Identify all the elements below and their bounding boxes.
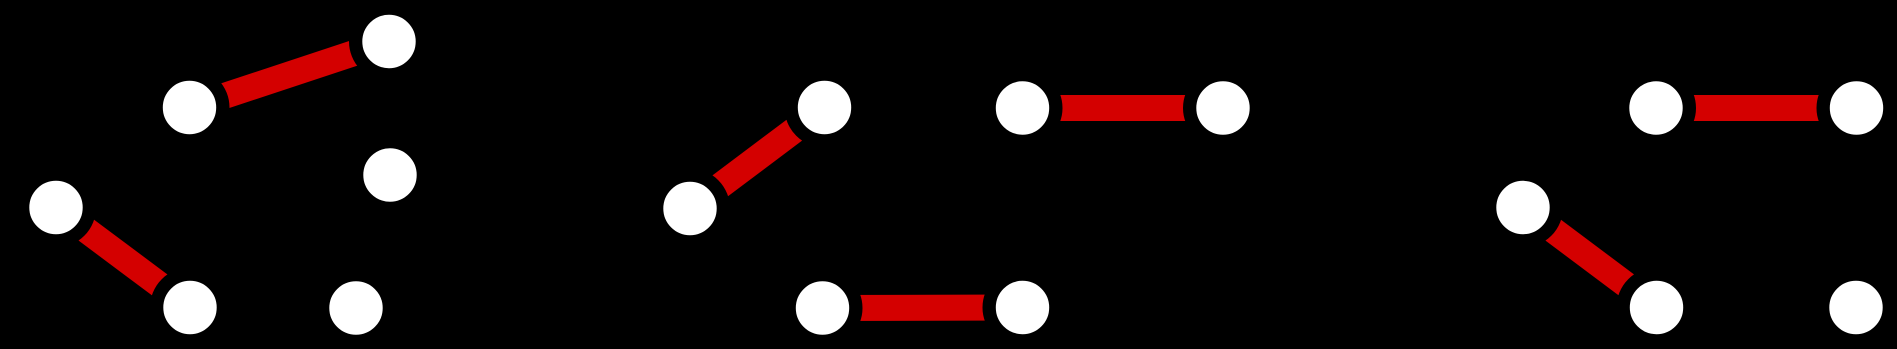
node G (graph 2): [791, 74, 858, 141]
matched edge C-D (graph 1): [56, 208, 190, 308]
matched edge I-J (graph 2): [1023, 95, 1224, 121]
node A (graph 1): [156, 74, 223, 141]
node Q (graph 3): [1823, 274, 1890, 341]
matched edge H-G (graph 2): [690, 108, 825, 209]
node P (graph 3): [1623, 274, 1690, 341]
node N (graph 3): [1623, 75, 1690, 142]
node K (graph 2): [789, 275, 856, 342]
node C (graph 1): [23, 174, 90, 241]
node O (graph 3): [1823, 75, 1890, 142]
node B (graph 1): [356, 8, 423, 75]
node I (graph 2): [989, 75, 1056, 142]
node E (graph 1): [357, 142, 424, 209]
matched edge K-L (graph 2): [823, 295, 1023, 322]
node J (graph 2): [1190, 75, 1257, 142]
matched edge A-B (graph 1): [190, 42, 390, 108]
matched edge M-P (graph 3): [1523, 208, 1657, 308]
node M (graph 3): [1490, 174, 1557, 241]
node D (graph 1): [157, 274, 224, 341]
node L (graph 2): [989, 274, 1056, 341]
node H (graph 2): [657, 175, 724, 242]
node F (graph 1): [323, 275, 390, 342]
matched edge N-O (graph 3): [1656, 95, 1857, 121]
